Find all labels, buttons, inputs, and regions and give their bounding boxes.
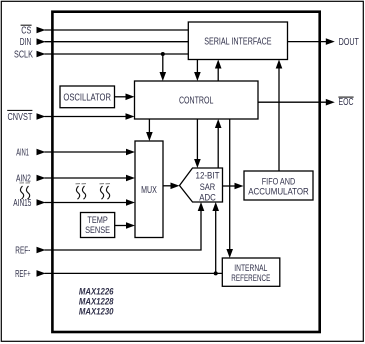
svg-text:REFERENCE: REFERENCE [231, 273, 270, 284]
pin arrow DIN [37, 38, 46, 45]
wire CNVST to CONTROL [45, 113, 135, 120]
wire CONTROL to EOC [258, 99, 335, 106]
wire ADC to CONTROL [215, 119, 222, 168]
pin label REF+ [15, 269, 31, 280]
block U2 OSCILLATOR [60, 86, 115, 108]
svg-text:CONTROL: CONTROL [179, 96, 214, 107]
block U3 CONTROL [135, 81, 259, 119]
wire FIFO to SERIAL INTERFACE [276, 60, 283, 172]
pin arrow CS [37, 27, 46, 34]
svg-text:MUX: MUX [141, 185, 157, 196]
wire SCLK [45, 53, 189, 55]
pin arrow CNVST [37, 113, 46, 120]
part number MAX1228 [79, 297, 114, 307]
svg-text:SCLK: SCLK [14, 50, 33, 61]
svg-text:AIN15: AIN15 [13, 198, 31, 209]
break squiggle left pair [20, 183, 31, 199]
svg-text:REF+: REF+ [15, 269, 31, 280]
wire CONTROL to ADC [194, 119, 201, 168]
wire OSCILLATOR to CONTROL [115, 94, 135, 101]
junction dot on SCLK [161, 52, 165, 56]
break squiggle mid pair 1 [76, 184, 87, 200]
svg-text:EOC: EOC [339, 97, 354, 108]
svg-text:OSCILLATOR: OSCILLATOR [63, 92, 111, 103]
svg-text:SAR: SAR [200, 182, 216, 193]
wire SCLK to CONTROL [160, 54, 167, 81]
pin label CS [21, 25, 32, 36]
pin label AIN2 [16, 174, 31, 185]
svg-text:MAX1230: MAX1230 [79, 307, 114, 317]
svg-text:MAX1228: MAX1228 [79, 297, 114, 307]
wire SERIAL INTERFACE to DOUT [288, 38, 335, 45]
wire TEMP SENSE to MUX [115, 222, 135, 229]
svg-text:ACCUMULATOR: ACCUMULATOR [248, 187, 309, 198]
block U6 12-BIT SAR ADC (pentagon) [180, 168, 223, 204]
junction dot on REF+ [214, 271, 218, 275]
wire ADC to FIFO [223, 183, 244, 190]
wire CONTROL to MUX [146, 119, 153, 141]
block U1 SERIAL INTERFACE [188, 22, 287, 60]
pin label REF- [15, 246, 30, 257]
pin label DOUT [339, 37, 359, 48]
svg-text:ADC: ADC [199, 193, 216, 204]
pin arrow AIN2 [37, 175, 46, 182]
pin arrow AIN15 [37, 199, 46, 206]
svg-text:REF-: REF- [15, 246, 30, 257]
block U7 FIFO AND ACCUMULATOR [244, 171, 313, 200]
wire AIN15 to MUX [45, 199, 136, 206]
pin arrow REF- [37, 247, 46, 254]
pin label EOC [338, 97, 353, 108]
pin label SCLK [14, 50, 33, 61]
wire AIN1 to MUX [45, 149, 136, 156]
wire CONTROL to INTERNAL REFERENCE [226, 119, 233, 258]
svg-text:DOUT: DOUT [339, 37, 359, 48]
block U5 TEMP SENSE [81, 213, 115, 238]
svg-text:CNVST: CNVST [8, 112, 33, 123]
svg-text:DIN: DIN [20, 37, 32, 48]
part number MAX1226 [79, 286, 114, 296]
part number MAX1230 [79, 307, 114, 317]
wire AIN2 to MUX [45, 175, 136, 182]
svg-text:SERIAL INTERFACE: SERIAL INTERFACE [204, 36, 272, 47]
break squiggle mid pair 2 [100, 184, 111, 200]
pin label DIN [20, 37, 32, 48]
wire REF+ to ADC [212, 202, 219, 273]
wire DIN [45, 41, 189, 43]
svg-text:AIN1: AIN1 [16, 148, 29, 159]
chip boundary [52, 12, 319, 332]
block U8 INTERNAL REFERENCE [222, 258, 279, 286]
pin arrow REF+ [37, 270, 46, 277]
svg-text:CS: CS [21, 26, 31, 37]
svg-text:SENSE: SENSE [85, 225, 110, 236]
pin arrow SCLK [37, 51, 46, 58]
svg-text:MAX1226: MAX1226 [79, 286, 114, 296]
wire CS [45, 29, 189, 31]
wire REF- to ADC [45, 202, 205, 250]
block U4 MUX [135, 141, 163, 238]
pin label CNVST [7, 110, 32, 122]
pin label AIN1 [16, 148, 29, 159]
wire REF+ to INTERNAL REFERENCE [45, 272, 223, 274]
svg-text:12-BIT: 12-BIT [196, 171, 220, 182]
wire CONTROL to SERIAL INTERFACE [215, 60, 222, 82]
wire MUX to ADC [163, 183, 180, 190]
wire SERIAL INTERFACE to CONTROL [194, 60, 201, 82]
pin label AIN15 [13, 198, 31, 209]
pin arrow AIN1 [37, 149, 46, 156]
